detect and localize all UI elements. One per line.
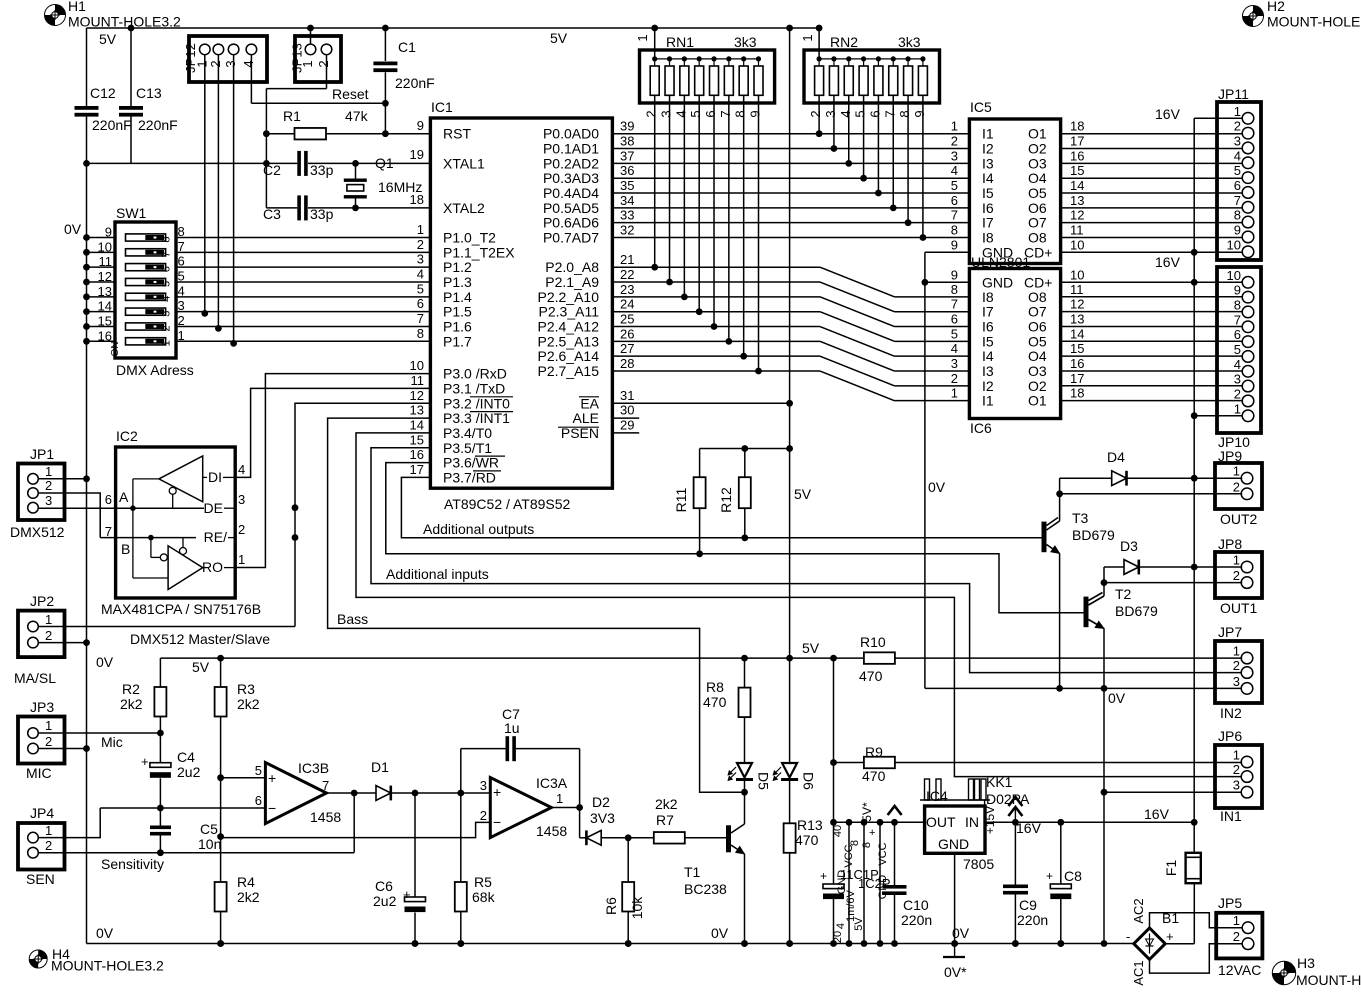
wire ALE stub	[612, 417, 639, 419]
svg-text:4: 4	[673, 110, 688, 117]
svg-text:+: +	[1046, 869, 1053, 883]
svg-text:2u2: 2u2	[373, 893, 397, 909]
svg-text:4: 4	[835, 923, 847, 929]
svg-text:8: 8	[733, 110, 748, 117]
resistor R12	[744, 449, 746, 478]
op IC2 MAX481 box	[116, 447, 236, 598]
connector JP12	[189, 36, 267, 82]
wire SW1 pin11 to 0V	[87, 266, 116, 268]
svg-text:P2.7_A15: P2.7_A15	[538, 363, 600, 379]
svg-text:+: +	[403, 887, 411, 902]
svg-text:Additional inputs: Additional inputs	[386, 566, 489, 582]
svg-text:4: 4	[1234, 357, 1241, 372]
svg-text:12: 12	[1070, 297, 1084, 312]
svg-text:8: 8	[951, 223, 958, 238]
wire IC6 CD+ to JP10 pin10	[1061, 281, 1243, 283]
wire RN1 pin1 to 5V	[654, 28, 656, 59]
transistor T3 BD679	[1042, 522, 1047, 553]
svg-text:16: 16	[1070, 148, 1084, 163]
svg-text:O6: O6	[1028, 200, 1047, 216]
svg-text:3: 3	[417, 252, 424, 267]
svg-text:1: 1	[951, 119, 958, 134]
IC2 receiver input bubble	[160, 554, 167, 561]
svg-text:7: 7	[160, 251, 172, 257]
svg-text:3: 3	[238, 492, 245, 507]
svg-text:6: 6	[867, 110, 882, 117]
resistor network RN2 3k3	[804, 50, 940, 103]
svg-text:P2.1_A9: P2.1_A9	[545, 274, 599, 290]
svg-text:H1: H1	[68, 0, 86, 14]
wire 0V to JP6 pin3	[1104, 791, 1242, 793]
svg-text:ON: ON	[110, 342, 121, 357]
wire JP9 pin2 to T3 collector	[1060, 493, 1243, 495]
wire 5V top rail	[87, 27, 823, 29]
wire 16V to JP11 pin1	[1194, 117, 1242, 119]
svg-text:39: 39	[620, 119, 634, 134]
svg-text:6: 6	[417, 296, 424, 311]
LED D6	[789, 658, 791, 763]
wire EA to 5V	[612, 402, 789, 404]
svg-text:Bass: Bass	[337, 611, 368, 627]
svg-text:7: 7	[322, 778, 329, 793]
svg-text:0V: 0V	[1108, 690, 1126, 706]
wire P0.7 bus to IC5 I8	[612, 237, 969, 239]
wire SW1 pin13 to 0V	[87, 296, 116, 298]
svg-text:37: 37	[620, 148, 634, 163]
svg-text:5: 5	[160, 281, 172, 287]
wire SW1 pin3 to IC1 P1.5	[176, 311, 430, 313]
svg-text:6: 6	[178, 254, 185, 269]
svg-text:DMX Adress: DMX Adress	[116, 362, 194, 378]
svg-text:12: 12	[98, 269, 112, 284]
svg-text:4: 4	[417, 266, 424, 281]
wire RN2 pin7 to P0.5	[892, 95, 894, 208]
svg-text:O8: O8	[1028, 289, 1047, 305]
mount-hole H1	[45, 5, 66, 26]
svg-text:+: +	[493, 784, 501, 800]
svg-text:Sensitivity: Sensitivity	[101, 856, 164, 872]
wire IC6 O8 to JP10	[1061, 296, 1243, 298]
svg-text:0V: 0V	[64, 221, 82, 237]
svg-text:5V: 5V	[550, 30, 568, 46]
IC2 receiver enable bubble	[180, 548, 187, 555]
svg-text:1: 1	[1233, 464, 1240, 479]
diode D4	[1060, 477, 1112, 479]
bridge rectifier B1	[1134, 928, 1165, 959]
wire P0.5 bus to IC5 I6	[612, 207, 969, 209]
wire SW1 pin10 to 0V	[87, 251, 116, 253]
switch SW1 element 6	[126, 308, 166, 315]
wire 0V to JP7 pin3	[925, 687, 1242, 689]
wire IC3B feedback	[353, 793, 355, 853]
svg-text:IN: IN	[965, 814, 979, 830]
svg-text:R9: R9	[865, 744, 883, 760]
svg-text:4: 4	[838, 110, 853, 117]
svg-text:I5: I5	[982, 333, 994, 349]
svg-text:5: 5	[1234, 163, 1241, 178]
svg-text:17: 17	[1070, 134, 1084, 149]
svg-text:14: 14	[1070, 178, 1084, 193]
wire C3 to XTAL2	[308, 207, 430, 209]
svg-text:10k: 10k	[629, 896, 645, 920]
switch SW1 element 4	[126, 278, 166, 285]
capacitor C10 220n	[894, 822, 896, 885]
svg-text:16: 16	[410, 447, 424, 462]
svg-text:14: 14	[1070, 326, 1084, 341]
svg-text:RST: RST	[443, 126, 471, 142]
wire RN2 pin3 to P0.1	[833, 95, 835, 148]
svg-text:1: 1	[1234, 104, 1241, 119]
switch SW1 element 8	[126, 338, 166, 345]
svg-text:2: 2	[1234, 386, 1241, 401]
wire SW1 pin1 to IC1 P1.7	[176, 340, 430, 342]
svg-text:3: 3	[480, 778, 487, 793]
wire P2.5 bus to IC6	[612, 340, 820, 342]
svg-text:IN2: IN2	[1220, 705, 1242, 721]
wire IC6 O2 to JP10	[1061, 385, 1243, 387]
wire IC5 pin9 to 0V	[925, 251, 970, 253]
svg-text:1: 1	[556, 791, 563, 806]
svg-text:6: 6	[951, 311, 958, 326]
svg-text:F1: F1	[1163, 860, 1179, 877]
wire RN1 pin8 to P2.6	[743, 95, 745, 356]
IC2 internal wiring B net	[148, 535, 154, 541]
svg-text:5: 5	[688, 110, 703, 117]
svg-text:C4: C4	[177, 749, 195, 765]
wire RN1 pin3 to P2.1	[669, 95, 671, 282]
svg-text:O4: O4	[1028, 170, 1047, 186]
wire SW1 pin8 to IC1 P1.0	[176, 237, 430, 239]
wire SW1 pin14 to 0V	[87, 311, 116, 313]
svg-text:IN1: IN1	[1220, 808, 1242, 824]
resistor R2 2k2	[159, 658, 161, 687]
svg-text:1: 1	[1233, 748, 1240, 763]
svg-text:OUT: OUT	[926, 814, 956, 830]
svg-text:6: 6	[105, 492, 112, 507]
wire IC6 O7 to JP10	[1061, 311, 1243, 313]
svg-text:38: 38	[620, 134, 634, 149]
svg-text:8: 8	[951, 282, 958, 297]
svg-text:C9: C9	[1019, 897, 1037, 913]
svg-text:P1.1_T2EX: P1.1_T2EX	[443, 244, 515, 260]
wire P2.7 bus to IC6	[612, 370, 820, 372]
wire PSEN stub	[612, 432, 639, 434]
svg-text:17: 17	[1070, 371, 1084, 386]
IC1 overlines	[470, 396, 513, 398]
svg-text:T1: T1	[684, 864, 701, 880]
wire IC6 O5 to JP10	[1061, 340, 1243, 342]
wire F1 to B1 plus	[1193, 883, 1195, 944]
svg-text:16V: 16V	[1155, 254, 1181, 270]
svg-text:220n: 220n	[901, 912, 932, 928]
wire R11 R12 top	[700, 448, 790, 450]
svg-text:R3: R3	[237, 681, 255, 697]
svg-text:3V3: 3V3	[590, 810, 615, 826]
svg-text:28: 28	[620, 356, 634, 371]
fuse F1	[1186, 853, 1201, 883]
svg-text:C13: C13	[136, 85, 162, 101]
svg-text:C1: C1	[398, 39, 416, 55]
svg-text:B: B	[121, 541, 130, 557]
svg-text:R4: R4	[237, 874, 255, 890]
svg-text:4: 4	[238, 462, 245, 477]
svg-text:8: 8	[1234, 208, 1241, 223]
wire JP13 pin1 to 5V	[310, 28, 312, 44]
resistor R4 2k2	[215, 882, 227, 912]
wire P0.1 bus to IC5 I2	[612, 148, 969, 150]
power pin column IC3P	[863, 822, 865, 943]
resistor R3 2k2	[220, 658, 222, 687]
svg-text:12: 12	[1070, 208, 1084, 223]
svg-text:220nF: 220nF	[395, 75, 435, 91]
svg-text:1C2P: 1C2P	[858, 876, 891, 891]
wire P3.0 to IC2 RO	[235, 374, 430, 568]
svg-text:10n: 10n	[198, 836, 221, 852]
svg-text:C2: C2	[263, 162, 281, 178]
svg-text:40: 40	[832, 825, 844, 837]
wire RN2 pin9 to P0.7	[922, 95, 924, 237]
svg-text:16: 16	[1070, 356, 1084, 371]
svg-text:P3.3 /INT1: P3.3 /INT1	[443, 410, 510, 426]
wire P3.5 to JP7 pin2	[371, 448, 1242, 673]
svg-text:JP1: JP1	[30, 446, 54, 462]
svg-text:7: 7	[951, 208, 958, 223]
svg-text:O3: O3	[1028, 155, 1047, 171]
wire C2 to XTAL1	[308, 162, 430, 164]
connector JP10	[1217, 267, 1261, 433]
svg-text:9: 9	[951, 237, 958, 252]
wire RN2 pin4 to P0.2	[848, 95, 850, 163]
svg-text:2: 2	[45, 838, 52, 853]
resistor R11	[699, 449, 701, 478]
svg-text:14: 14	[98, 299, 112, 314]
svg-text:1: 1	[45, 464, 52, 479]
svg-text:H2: H2	[1267, 0, 1285, 14]
op IC1 AT89C52 box	[430, 118, 612, 488]
transistor T2 BD679	[1084, 597, 1089, 628]
wire P3.3 Bass to D5 node	[328, 418, 745, 792]
svg-text:RO: RO	[202, 559, 223, 575]
svg-text:P3.0 /RxD: P3.0 /RxD	[443, 366, 507, 382]
svg-text:6: 6	[703, 110, 718, 117]
svg-text:P0.2AD2: P0.2AD2	[543, 155, 599, 171]
wire P0.4 bus to IC5 I5	[612, 192, 969, 194]
svg-text:5V: 5V	[802, 640, 820, 656]
svg-text:35: 35	[620, 178, 634, 193]
svg-text:3k3: 3k3	[898, 34, 921, 50]
svg-text:2: 2	[316, 60, 331, 67]
wire JP12 pin1 to P1.5	[204, 55, 206, 314]
svg-text:IC1: IC1	[431, 99, 453, 115]
svg-text:P3.7/RD: P3.7/RD	[443, 469, 496, 485]
wire JP12 pin2 to P1.6	[217, 55, 219, 329]
svg-text:11: 11	[99, 254, 113, 269]
connector JP11	[1217, 102, 1261, 260]
svg-text:Mic: Mic	[101, 734, 123, 750]
capacitor C5 10n	[159, 808, 161, 826]
svg-text:SW1: SW1	[116, 205, 147, 221]
svg-text:XTAL1: XTAL1	[443, 155, 485, 171]
svg-text:68k: 68k	[472, 889, 496, 905]
wire P3.6 to T2 base	[386, 463, 1086, 613]
svg-text:470: 470	[795, 832, 819, 848]
wire IC6 O6 to JP10	[1061, 325, 1243, 327]
svg-text:P1.3: P1.3	[443, 274, 472, 290]
svg-text:3: 3	[45, 493, 52, 508]
svg-text:I6: I6	[982, 200, 994, 216]
svg-text:9: 9	[1234, 283, 1241, 298]
wire RN1 pin5 to P2.3	[698, 95, 700, 311]
svg-text:Q1: Q1	[375, 155, 394, 171]
power pin column IC5P	[879, 822, 881, 943]
zener D2 3V3	[580, 837, 587, 839]
svg-text:P0.4AD4: P0.4AD4	[543, 185, 599, 201]
wire P3.7 to T3 base	[401, 477, 1041, 537]
svg-text:9: 9	[912, 110, 927, 117]
wire P2.6 bus to IC6	[612, 355, 820, 357]
svg-text:1458: 1458	[310, 809, 341, 825]
svg-text:2: 2	[808, 110, 823, 117]
svg-text:JP5: JP5	[1218, 895, 1242, 911]
svg-text:MIC: MIC	[26, 765, 52, 781]
svg-text:5: 5	[178, 268, 185, 283]
svg-text:VCC: VCC	[843, 844, 855, 867]
svg-text:C3: C3	[263, 206, 281, 222]
svg-text:+: +	[820, 869, 827, 883]
IC2 driver inverted-output bubble	[169, 487, 176, 494]
wire Sensitivity row	[38, 852, 354, 854]
svg-text:30: 30	[620, 403, 634, 418]
wire 7805 IN 16V row	[985, 821, 1194, 823]
svg-text:+: +	[869, 827, 875, 839]
svg-text:D4: D4	[1107, 449, 1125, 465]
svg-text:DI: DI	[208, 469, 222, 485]
svg-text:GND: GND	[938, 836, 969, 852]
svg-text:C10: C10	[903, 897, 929, 913]
switch SW1 element 2	[126, 249, 166, 256]
svg-text:1: 1	[951, 386, 958, 401]
svg-text:P0.3AD3: P0.3AD3	[543, 170, 599, 186]
svg-text:220nF: 220nF	[92, 117, 132, 133]
mount-hole H3	[1272, 961, 1295, 984]
mount-hole H2	[1243, 6, 1264, 27]
svg-text:16: 16	[98, 328, 112, 343]
svg-text:2k2: 2k2	[237, 696, 260, 712]
svg-text:1: 1	[45, 612, 52, 627]
svg-text:P1.7: P1.7	[443, 333, 472, 349]
svg-text:IC3B: IC3B	[298, 760, 329, 776]
svg-text:I2: I2	[982, 378, 994, 394]
wire IC5 O6 to JP11 pin7	[1061, 207, 1243, 209]
wire P2.1 bus to IC6	[612, 281, 820, 283]
svg-text:10: 10	[1070, 267, 1084, 282]
svg-text:29: 29	[620, 418, 634, 433]
wire SW1 pin7 to IC1 P1.1	[176, 251, 430, 253]
svg-text:13: 13	[410, 403, 424, 418]
svg-text:6: 6	[951, 193, 958, 208]
svg-text:1: 1	[178, 328, 185, 343]
svg-text:P2.2_A10: P2.2_A10	[538, 289, 600, 305]
resistor R6 10k	[627, 838, 629, 882]
resistor R13 470	[784, 823, 796, 853]
wire SW1 pin9 to 0V	[87, 237, 116, 239]
svg-text:OUT1: OUT1	[1220, 600, 1258, 616]
svg-text:36: 36	[620, 163, 634, 178]
svg-text:1m/6V: 1m/6V	[845, 889, 857, 921]
svg-text:2: 2	[1233, 929, 1240, 944]
svg-text:MOUNT-HOLE: MOUNT-HOLE	[1267, 14, 1360, 30]
svg-text:DE: DE	[204, 500, 223, 516]
wire IC6 O1 to JP10	[1061, 400, 1243, 402]
svg-text:R10: R10	[860, 634, 886, 650]
svg-text:1u: 1u	[504, 720, 520, 736]
svg-text:3: 3	[951, 148, 958, 163]
wire 16V to JP10 pin1	[1194, 415, 1242, 417]
svg-text:12: 12	[410, 388, 424, 403]
wire 16V backbone	[1193, 118, 1195, 853]
svg-text:8: 8	[178, 224, 185, 239]
wire IC3A output	[551, 807, 579, 809]
resistor R7 2k2	[654, 832, 685, 844]
svg-text:13: 13	[98, 284, 112, 299]
svg-text:P0.6AD6: P0.6AD6	[543, 215, 599, 231]
svg-text:5: 5	[417, 281, 424, 296]
svg-text:2: 2	[1233, 568, 1240, 583]
wire SW1 pin5 to IC1 P1.3	[176, 281, 430, 283]
op IC6 ULN2801 box	[969, 269, 1060, 419]
svg-text:2k2: 2k2	[655, 796, 678, 812]
svg-text:R2: R2	[122, 681, 140, 697]
wire IC3B -input row	[100, 807, 265, 809]
svg-text:BC238: BC238	[684, 881, 727, 897]
svg-text:P3.5/T1: P3.5/T1	[443, 440, 492, 456]
wire IC5 O7 to JP11 pin8	[1061, 222, 1243, 224]
op-amp IC3A	[490, 778, 551, 838]
svg-text:10: 10	[1070, 237, 1084, 252]
svg-text:1: 1	[1233, 644, 1240, 659]
svg-text:JP3: JP3	[30, 699, 54, 715]
svg-text:4: 4	[241, 60, 256, 67]
svg-text:5: 5	[951, 326, 958, 341]
svg-text:2: 2	[238, 522, 245, 537]
svg-text:5V: 5V	[853, 917, 865, 931]
svg-text:13: 13	[1070, 193, 1084, 208]
mount-hole H4	[29, 950, 47, 968]
resistor network RN1 3k3	[640, 50, 775, 103]
wire 0V left backbone	[86, 28, 88, 106]
svg-text:33: 33	[620, 208, 634, 223]
wire B1 AC2 to JP5 pin1	[1150, 913, 1243, 928]
svg-text:3: 3	[160, 311, 172, 317]
svg-text:O7: O7	[1028, 304, 1047, 320]
svg-text:IC2: IC2	[116, 428, 138, 444]
svg-text:1: 1	[417, 222, 424, 237]
wire IC5 O1 to JP11 pin2	[1061, 133, 1243, 135]
svg-text:JP11: JP11	[1218, 86, 1249, 102]
svg-text:3: 3	[951, 356, 958, 371]
svg-text:O2: O2	[1028, 378, 1047, 394]
wire IC6 O3 to JP10	[1061, 370, 1243, 372]
svg-text:I1: I1	[982, 126, 994, 142]
svg-text:BD679: BD679	[1072, 527, 1115, 543]
svg-text:2: 2	[951, 371, 958, 386]
svg-text:D5: D5	[756, 772, 772, 790]
svg-text:2k2: 2k2	[120, 696, 143, 712]
svg-text:8: 8	[160, 236, 172, 242]
svg-text:7: 7	[951, 297, 958, 312]
svg-text:470: 470	[859, 668, 883, 684]
svg-text:5V: 5V	[192, 659, 210, 675]
